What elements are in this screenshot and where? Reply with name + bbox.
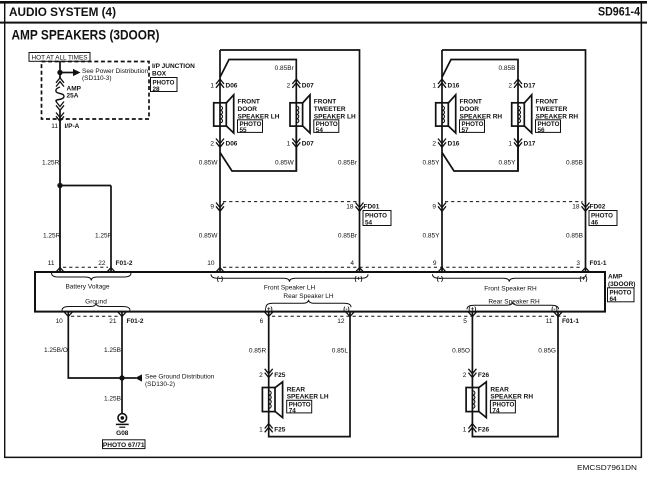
svg-text:1: 1 [432,83,436,90]
svg-text:0.85G: 0.85G [538,347,556,354]
svg-text:18: 18 [572,203,580,210]
speaker FRONT|DOOR|SPEAKER RH [436,95,456,133]
svg-text:F26: F26 [478,426,490,433]
amp bottom pin 12 chevron [346,312,355,317]
connector 2 D17 chevrons [514,79,522,88]
svg-text:AMP: AMP [608,273,623,280]
svg-text:F25: F25 [274,426,286,433]
photo box PHOTO 74 [287,400,312,414]
wire 1.25B to ground G08 [121,378,123,414]
svg-text:18: 18 [346,203,354,210]
wire tweeter parallel feed [220,60,296,172]
svg-text:F01-2: F01-2 [116,260,133,267]
brace battery voltage pins [52,273,132,281]
svg-text:6: 6 [260,318,264,325]
connector 1 F26 chevrons [468,424,476,433]
svg-text:D06: D06 [226,83,238,90]
label AMP (3DOOR) [608,273,635,288]
svg-text:1: 1 [287,141,291,148]
svg-text:AUDIO SYSTEM (4): AUDIO SYSTEM (4) [9,5,116,19]
connector F01-2 dashed line (bottom pins 10-21) [71,315,119,317]
label HOT AT ALL TIMES [29,53,90,62]
svg-text:FRONT: FRONT [536,99,558,106]
svg-text:5: 5 [463,318,467,325]
svg-text:0.85Y: 0.85Y [423,160,441,167]
I/P junction box dashed outline [42,62,150,120]
svg-text:22: 22 [98,260,106,267]
fuse value label AMP 25A [67,86,82,100]
wire top run D06 to amp (+) [220,50,360,272]
svg-text:F01-1: F01-1 [590,260,607,267]
svg-text:PHOTO: PHOTO [591,212,613,219]
photo box PHOTO 74 [490,400,515,414]
label REAR SPEAKER RH [490,386,533,400]
svg-text:F01-1: F01-1 [562,318,579,325]
svg-text:Battery Voltage: Battery Voltage [65,284,109,291]
svg-text:EMCSD7961DN: EMCSD7961DN [577,465,637,472]
svg-text:(-): (-) [217,276,223,283]
svg-text:12: 12 [337,318,345,325]
speaker FRONT|TWEETER|SPEAKER LH [290,95,310,133]
svg-text:0.85Y: 0.85Y [499,160,517,167]
svg-text:(+): (+) [355,276,363,283]
speaker FRONT|TWEETER|SPEAKER RH [512,95,532,133]
header separator line [0,22,647,24]
photo box PHOTO 54 [363,211,391,227]
connector F01-2 dashed line (top pins 11-22) [63,266,108,268]
wire tweeter parallel feed [442,60,518,172]
wire node to fuse [59,73,61,80]
svg-text:HOT AT ALL TIMES: HOT AT ALL TIMES [32,54,89,61]
svg-text:1: 1 [463,426,467,433]
svg-text:0.85Y: 0.85Y [423,233,441,240]
junction node (ground) [119,375,124,380]
svg-text:2: 2 [287,83,291,90]
svg-text:55: 55 [240,127,248,134]
in-line connector FD01 dashed line [223,201,357,203]
svg-text:D17: D17 [524,141,536,148]
amp bottom pin 5 chevron [468,312,477,317]
label FRONT TWEETER SPEAKER LH [314,99,356,121]
label FRONT DOOR SPEAKER LH [238,99,280,121]
wire 1.25P to amp pin 22 [110,186,112,273]
svg-text:11: 11 [51,123,58,130]
connector F01-1 dashed line (top pins 10-3) [223,266,583,268]
svg-text:0.85Br: 0.85Br [275,65,295,72]
label I/P JUNCTION BOX [152,63,195,77]
svg-text:25A: 25A [67,93,79,100]
brace rear speaker RH [467,302,559,310]
svg-text:See Ground Distribution: See Ground Distribution [145,373,215,380]
svg-text:28: 28 [153,86,161,93]
svg-text:DOOR: DOOR [238,106,258,113]
svg-text:Rear Speaker LH: Rear Speaker LH [283,293,334,300]
speaker FRONT|DOOR|SPEAKER LH [214,95,234,133]
wire D16 speaker feed vertical [441,50,443,272]
svg-text:D16: D16 [448,141,460,148]
svg-text:0.85W: 0.85W [275,160,295,167]
photo box PHOTO 46 [589,211,617,227]
op-amp AMP (3DOOR) box [35,272,605,312]
svg-text:0.85B: 0.85B [499,65,516,72]
svg-text:I/P-A: I/P-A [65,123,80,130]
amp top pin 3 chevron [581,268,590,273]
wire stub from box top to node [59,62,61,73]
label FRONT DOOR SPEAKER RH [460,99,503,121]
svg-text:D17: D17 [524,83,536,90]
photo box PHOTO 57 [460,120,485,134]
connector pin 18 FD01 chevrons [356,203,364,212]
svg-text:21: 21 [109,318,117,325]
wire tweeter return joining run [220,126,296,171]
svg-text:D07: D07 [302,141,314,148]
amp top pin 9 chevron [438,268,447,273]
connector 2 D06 chevrons [216,139,224,148]
wire amp to F26 pin 2 and return loop [472,312,558,437]
svg-text:F25: F25 [274,372,286,379]
amp bottom pin 21 chevron [118,312,127,317]
svg-text:TWEETER: TWEETER [314,106,346,113]
svg-text:10: 10 [207,260,215,267]
svg-text:2: 2 [463,372,467,379]
svg-text:(-): (-) [343,306,349,313]
svg-text:AMP SPEAKERS (3DOOR): AMP SPEAKERS (3DOOR) [12,28,160,43]
svg-text:1.25B: 1.25B [104,347,121,354]
photo box PHOTO 56 [536,120,561,134]
wire tweeter return joining run [442,126,518,171]
wire top run D16 to amp (+) [442,50,586,272]
svg-text:SPEAKER LH: SPEAKER LH [287,394,329,401]
photo box PHOTO 67/71 [103,440,146,449]
svg-text:BOX: BOX [152,70,167,77]
svg-text:(-): (-) [437,276,443,283]
svg-text:REAR: REAR [287,386,306,393]
svg-text:(SD130-2): (SD130-2) [145,381,175,388]
svg-text:FD02: FD02 [590,203,606,210]
svg-text:1.25B/O: 1.25B/O [44,347,68,354]
svg-text:0.85O: 0.85O [452,347,470,354]
svg-text:PHOTO 67/71: PHOTO 67/71 [103,442,145,449]
svg-text:0.85L: 0.85L [332,347,349,354]
svg-text:1.25B: 1.25B [104,396,121,403]
svg-text:AMP: AMP [67,86,82,93]
fuse bottom connector chevrons [56,102,64,111]
ground G08 symbol [116,414,129,428]
speaker REAR|SPEAKER LH [262,382,282,418]
arrow See Power Distribution [60,68,148,82]
connector 1 D17 chevrons [514,139,522,148]
svg-text:Front Speaker RH: Front Speaker RH [484,285,537,292]
svg-text:2: 2 [259,372,263,379]
connector 2 F25 chevrons [265,369,273,378]
amp bottom pin 6 chevron [264,312,273,317]
connector 2 F26 chevrons [468,369,476,378]
svg-text:F26: F26 [478,372,490,379]
connector 2 D16 chevrons [438,139,446,148]
in-line connector FD02 dashed line [445,201,583,203]
svg-text:11: 11 [546,318,553,325]
svg-text:9: 9 [210,203,214,210]
svg-text:10: 10 [56,318,64,325]
svg-text:0.85Br: 0.85Br [338,160,358,167]
svg-text:4: 4 [350,260,354,267]
wire branch horizontal [60,185,111,187]
connector pin 9 FD01 chevrons [216,203,224,212]
wire amp to F25 pin 2 and return loop [269,312,350,437]
svg-text:9: 9 [432,203,436,210]
svg-text:1.25R: 1.25R [42,160,60,167]
svg-text:46: 46 [591,219,599,226]
svg-text:2: 2 [210,141,214,148]
page frame top bar [0,1,647,4]
svg-text:0.85Br: 0.85Br [338,233,358,240]
wire 1.25B from amp pin 21 [121,312,123,378]
svg-text:0.85B: 0.85B [566,233,583,240]
svg-text:PHOTO: PHOTO [365,212,387,219]
brace front speaker LH [211,274,368,282]
svg-text:3: 3 [576,260,580,267]
frame bottom border [4,457,642,459]
svg-text:0.85R: 0.85R [249,347,267,354]
connector 2 D07 chevrons [292,79,300,88]
svg-text:D06: D06 [226,141,238,148]
wire 1.25R from I/P-A to amp pin 11 [59,122,61,273]
svg-text:TWEETER: TWEETER [536,106,568,113]
svg-text:FRONT: FRONT [460,99,482,106]
svg-text:9: 9 [433,260,437,267]
connector pin 18 FD02 chevrons [582,203,590,212]
svg-text:REAR: REAR [490,386,509,393]
photo box PHOTO 54 [314,120,339,134]
connector 1 D06 chevrons [216,79,224,88]
svg-text:Front Speaker LH: Front Speaker LH [264,284,316,291]
svg-text:FRONT: FRONT [314,99,336,106]
brace front speaker RH [433,274,587,282]
wire D06 speaker feed vertical [219,50,221,272]
label FRONT TWEETER SPEAKER RH [536,99,579,121]
svg-text:(SD110-3): (SD110-3) [82,75,112,82]
speaker REAR|SPEAKER RH [466,382,486,418]
label REAR SPEAKER LH [287,386,329,400]
photo box PHOTO 28 [151,78,178,93]
photo box PHOTO 55 [238,120,263,134]
wire 1.25B/O from amp pin 10 [68,312,122,378]
svg-text:0.85W: 0.85W [199,160,219,167]
svg-text:G08: G08 [116,430,129,437]
svg-text:64: 64 [610,296,618,303]
connector F01-1 dashed line (bottom pins 6-11) [272,315,566,317]
svg-text:0.85B: 0.85B [566,160,583,167]
svg-text:DOOR: DOOR [460,106,480,113]
junction node (battery branch) [57,183,62,188]
frame right border [641,2,643,458]
svg-text:1.25P: 1.25P [95,233,112,240]
svg-text:(3DOOR): (3DOOR) [608,281,635,288]
svg-text:D07: D07 [302,83,314,90]
svg-text:(+): (+) [580,276,588,283]
amp top pin 10 chevron [216,268,225,273]
amp top pin 22 chevron [107,268,116,273]
svg-text:FD01: FD01 [364,203,380,210]
svg-text:1: 1 [508,141,512,148]
arrow See Ground Distribution [122,373,215,388]
svg-text:54: 54 [365,219,373,226]
connector 1 F25 chevrons [265,424,273,433]
svg-text:54: 54 [316,127,324,134]
svg-text:I/P JUNCTION: I/P JUNCTION [152,63,195,70]
svg-text:57: 57 [462,127,470,134]
wire fuse to connector 11 [59,111,61,122]
brace rear speaker LH [266,300,351,308]
svg-text:See Power Distribution: See Power Distribution [82,68,148,75]
photo box PHOTO 64 [608,288,635,303]
connector pin 11 I/P-A chevrons [56,113,64,122]
svg-text:SPEAKER RH: SPEAKER RH [490,394,533,401]
svg-text:2: 2 [508,83,512,90]
amp bottom pin 11 chevron [554,312,563,317]
fuse AMP 25A element [56,87,64,102]
svg-text:1: 1 [210,83,214,90]
amp top pin 4 chevron [355,268,364,273]
svg-text:1: 1 [259,426,263,433]
svg-text:SD961-4: SD961-4 [598,7,641,19]
svg-text:0.85W: 0.85W [199,233,219,240]
svg-text:2: 2 [432,141,436,148]
svg-text:11: 11 [48,260,55,267]
svg-text:D16: D16 [448,83,460,90]
connector pin 9 FD02 chevrons [438,203,446,212]
connector 1 D16 chevrons [438,79,446,88]
svg-text:1.25R: 1.25R [43,233,61,240]
svg-text:56: 56 [538,127,546,134]
svg-text:F01-2: F01-2 [127,318,144,325]
fuse top connector chevrons [56,78,64,87]
frame left border [4,3,5,458]
brace ground pins [62,303,130,311]
connector 1 D07 chevrons [292,139,300,148]
svg-text:FRONT: FRONT [238,99,260,106]
junction node (power) [57,70,62,75]
svg-text:74: 74 [289,407,297,414]
amp bottom pin 10 chevron [64,312,73,317]
svg-text:(-): (-) [551,306,557,313]
svg-text:74: 74 [492,407,500,414]
amp top pin 11 chevron [56,268,65,273]
